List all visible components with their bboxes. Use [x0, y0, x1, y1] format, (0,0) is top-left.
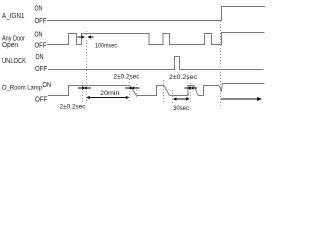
svg-text:30sec: 30sec: [173, 105, 190, 112]
svg-text:O_Room Lamp: O_Room Lamp: [2, 85, 42, 92]
svg-text:ON: ON: [35, 6, 43, 13]
arrow lamp stays off (rightward): [221, 97, 262, 101]
dashed reference line x=220 (IGN ON): [220, 21, 222, 107]
waveform A_IGN1: [47, 7, 265, 21]
svg-text:ON: ON: [43, 82, 52, 89]
dashed reference line x=137 (fade end): [136, 84, 138, 97]
svg-text:A_IGN1: A_IGN1: [2, 13, 25, 20]
dimension arrows lamp on-delay (x 82/86): [78, 86, 91, 89]
lamp final fade slant interrupted by IGN ON (checkmark): [219, 84, 223, 92]
svg-text:2±0.2sec: 2±0.2sec: [60, 104, 87, 111]
svg-text:Open: Open: [2, 42, 18, 49]
dashed reference line x=163.5 (fade 2 start): [163, 80, 165, 103]
lamp fade slant 1: [130, 86, 137, 96]
dashed reference line x=172.8 (30sec start): [172, 90, 174, 104]
dashed reference line x=86 (100msec): [86, 31, 88, 102]
lamp stays ON line (after IGN ON): [223, 83, 265, 85]
svg-text:2±0.2sec: 2±0.2sec: [114, 74, 141, 81]
svg-text:OFF: OFF: [35, 97, 48, 104]
waveform Any Door Open: [47, 33, 265, 45]
waveform O_Room Lamp (with fade-out slants): [48, 86, 130, 96]
dimension arrows lamp fade at x=130/136.5: [125, 86, 140, 89]
lamp fade slant 2: [164, 86, 170, 96]
dimension arrow 30sec (double headed): [173, 97, 190, 100]
dimension arrow 20min (double headed): [86, 96, 129, 99]
dashed reference line x=130 (20min end / fade start): [129, 79, 131, 102]
svg-text:2±0.2sec: 2±0.2sec: [169, 74, 198, 81]
svg-text:OFF: OFF: [35, 43, 47, 50]
dimension arrows lamp relight at x=188/193.5: [185, 86, 198, 89]
svg-text:OFF: OFF: [35, 18, 47, 25]
dashed reference line x=82.5 (lamp 2±0.2sec left): [82, 83, 84, 102]
dimension arrows 100msec (door row): [78, 35, 94, 38]
svg-text:UNLOCK: UNLOCK: [2, 58, 26, 65]
lamp fade slant 3 (short): [194, 86, 198, 96]
dashed reference line x=187.5 (lamp relight): [187, 79, 189, 99]
svg-text:ON: ON: [35, 32, 43, 39]
svg-text:100msec: 100msec: [95, 43, 118, 50]
svg-text:OFF: OFF: [35, 66, 47, 73]
svg-text:20min: 20min: [100, 90, 120, 97]
waveform UNLOCK: [48, 57, 264, 70]
dashed reference line x=190.7 (30sec end / relight +2s): [190, 83, 192, 104]
svg-text:ON: ON: [36, 54, 44, 61]
